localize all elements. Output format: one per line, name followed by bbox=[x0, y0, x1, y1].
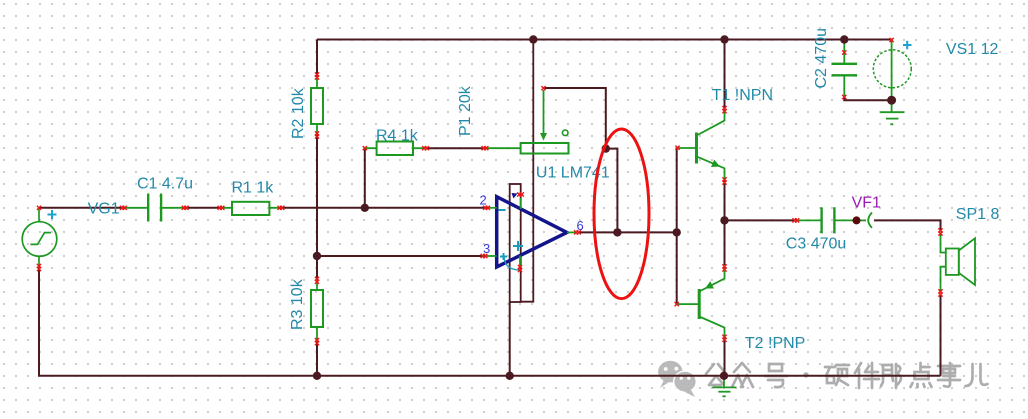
svg-text:T2 !PNP: T2 !PNP bbox=[745, 335, 805, 352]
plus sign VG1 bbox=[48, 210, 57, 219]
potentiometer P1 bbox=[487, 90, 569, 154]
watermark text gongzhonghao yingjian nadianshier bbox=[706, 363, 988, 388]
capacitor C3 bbox=[797, 207, 866, 233]
wire VF1 to speaker bbox=[874, 220, 941, 230]
junction node VS1 bottom bbox=[887, 96, 896, 105]
wire bottom rail bbox=[39, 269, 941, 376]
wire R4 left to signal node bbox=[364, 148, 366, 208]
wire R1 to op-amp pin 2 bbox=[281, 207, 487, 209]
ground below T2 bbox=[712, 376, 736, 397]
junction node R2-R3 pin3 bbox=[313, 252, 321, 260]
capacitor C1 bbox=[123, 194, 185, 222]
wire op-amp V- to ground rail bbox=[509, 302, 511, 376]
wire T1 emitter to output node bbox=[724, 181, 726, 220]
transistor T2 bbox=[678, 266, 725, 340]
resistor R4 bbox=[365, 142, 424, 156]
wire output node to C3 bbox=[725, 219, 796, 221]
wire op-amp V+ supply drop bbox=[521, 40, 534, 302]
svg-text:R3 10k: R3 10k bbox=[289, 278, 306, 330]
ground below VS1 bbox=[880, 100, 904, 124]
resistor R2 bbox=[311, 76, 323, 135]
resistor R1 bbox=[221, 202, 281, 215]
svg-text:6: 6 bbox=[577, 218, 584, 233]
junction node supply top bbox=[529, 35, 537, 43]
wire op-amp output to transistor bases bbox=[580, 231, 677, 233]
wire C2 bottom to VS1 bottom bbox=[844, 98, 891, 101]
junction node opamp V- rail bbox=[506, 372, 514, 380]
wire C1 to R1 bbox=[185, 207, 221, 209]
junction node C2 rail bbox=[840, 35, 848, 43]
wire feedback down to output node bbox=[606, 149, 618, 233]
junction node R3 ground rail bbox=[313, 372, 321, 380]
plus sign VS1 bbox=[903, 41, 912, 50]
svg-text:C1 4.7u: C1 4.7u bbox=[137, 176, 193, 193]
svg-text:VF1: VF1 bbox=[852, 195, 881, 212]
wire T2 emitter to output node bbox=[724, 220, 726, 265]
pin marks red x bbox=[37, 38, 943, 345]
svg-text:3: 3 bbox=[483, 241, 490, 256]
transistor T1 bbox=[678, 110, 725, 181]
wire top rail bbox=[317, 39, 892, 41]
svg-text:VS1 12: VS1 12 bbox=[946, 41, 999, 58]
wire R2 bottom to R3 top bbox=[316, 135, 318, 280]
wire R4 to P1 bbox=[427, 147, 483, 149]
svg-text:C3 470u: C3 470u bbox=[786, 236, 847, 253]
wire P1 wiper feedback jog bbox=[544, 88, 606, 149]
junction node signal-R4 bbox=[361, 204, 369, 212]
source VG1 bbox=[22, 208, 57, 270]
wire R3 bottom to ground rail bbox=[316, 342, 318, 376]
watermark wechat icon bbox=[658, 361, 696, 397]
svg-text:VG1: VG1 bbox=[88, 200, 120, 217]
resistor R3 bbox=[311, 280, 323, 341]
wire speaker bottom to rail bbox=[940, 295, 942, 376]
svg-text:C2 470u: C2 470u bbox=[813, 28, 830, 89]
svg-text:P1 20k: P1 20k bbox=[457, 85, 474, 136]
annotation red ellipse bbox=[594, 129, 649, 299]
capacitor C2 bbox=[832, 40, 858, 99]
source VS1 bbox=[873, 40, 911, 101]
svg-text:2: 2 bbox=[480, 193, 487, 208]
op-amp U1 offset rect bbox=[510, 184, 521, 302]
svg-text:SP1 8: SP1 8 bbox=[956, 206, 1000, 223]
junction node bases output bbox=[673, 228, 681, 236]
svg-text:R4 1k: R4 1k bbox=[376, 128, 419, 145]
speaker SP1 bbox=[941, 234, 976, 291]
wire base vertical T1 to T2 bbox=[676, 148, 678, 304]
wire T1 collector to rail bbox=[724, 40, 726, 110]
junction node emitters bbox=[720, 216, 728, 224]
junction node P1 wiper bbox=[602, 144, 610, 152]
svg-text:R1 1k: R1 1k bbox=[232, 180, 275, 197]
wire R2 top lead from rail bbox=[316, 40, 318, 77]
op-amp U1 triangle bbox=[484, 193, 576, 270]
wire T2 collector to ground rail bbox=[724, 341, 726, 376]
voltage probe VF1 bbox=[853, 213, 873, 228]
junction node feedback output bbox=[613, 228, 621, 236]
wire VG1 to C1 bbox=[39, 207, 123, 209]
junction node T2 collector rail bbox=[720, 372, 728, 380]
svg-text:R2 10k: R2 10k bbox=[290, 87, 307, 139]
junction node T1 collector rail bbox=[720, 35, 728, 43]
wire node to op-amp pin 3 bbox=[317, 255, 484, 257]
svg-text:T1 !NPN: T1 !NPN bbox=[712, 87, 773, 104]
